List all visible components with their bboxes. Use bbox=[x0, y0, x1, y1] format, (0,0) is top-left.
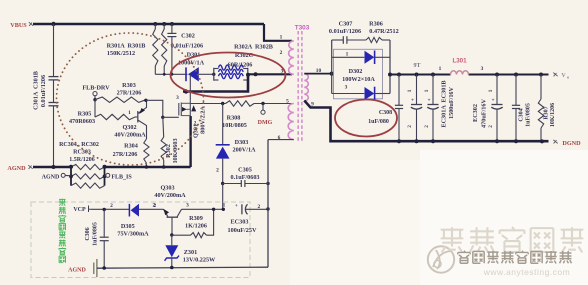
wire VCP to D305 bbox=[91, 208, 129, 210]
svg-text:10R/0805: 10R/0805 bbox=[222, 122, 247, 129]
svg-text:AGND: AGND bbox=[42, 174, 60, 180]
node VBUS junction dots bbox=[51, 22, 55, 26]
svg-text:1.5R/1206: 1.5R/1206 bbox=[69, 157, 95, 163]
wire drive node to gate bbox=[146, 100, 163, 117]
wire bottom return rail bbox=[97, 267, 268, 268]
capacitor C307 bbox=[332, 39, 343, 41]
wire AGND rail (thick) bbox=[33, 166, 71, 168]
svg-text:C301A C301B: C301A C301B bbox=[33, 71, 40, 110]
watermark logo circle bbox=[428, 246, 454, 272]
svg-text:13V/0.225W: 13V/0.225W bbox=[183, 256, 216, 263]
svg-text:3: 3 bbox=[345, 84, 348, 90]
svg-text:DMG: DMG bbox=[258, 120, 273, 126]
green dashed box bbox=[31, 202, 250, 278]
wire pin6 vertical down bbox=[267, 140, 269, 268]
svg-text:1: 1 bbox=[280, 34, 283, 40]
svg-text:2: 2 bbox=[280, 50, 283, 56]
svg-text:Q303: Q303 bbox=[160, 184, 174, 191]
wire clamp return to drain (thick L) bbox=[183, 74, 248, 91]
svg-text:5: 5 bbox=[286, 98, 289, 104]
resistor R302 10K bbox=[162, 117, 165, 137]
svg-text:EC302: EC302 bbox=[472, 104, 479, 122]
svg-text:10K/1206: 10K/1206 bbox=[550, 103, 556, 127]
svg-text:800V/2.2A: 800V/2.2A bbox=[200, 106, 207, 134]
transistor Q301 MOSFET bbox=[178, 103, 180, 116]
wire D303 vertical bbox=[222, 104, 224, 145]
svg-text:2: 2 bbox=[488, 125, 494, 128]
svg-text:AGND: AGND bbox=[68, 267, 86, 273]
svg-text:1500uF/16V: 1500uF/16V bbox=[448, 86, 455, 119]
wire Q301 source down (thick) bbox=[189, 116, 191, 167]
svg-text:40V/200mA: 40V/200mA bbox=[154, 192, 186, 199]
resistor R304 bbox=[144, 139, 149, 163]
svg-text:L301: L301 bbox=[452, 58, 467, 65]
svg-text:3: 3 bbox=[176, 95, 179, 101]
svg-text:200V/1A: 200V/1A bbox=[232, 147, 256, 154]
svg-text:40V/200mA: 40V/200mA bbox=[114, 132, 146, 139]
svg-text:0.47R/2512: 0.47R/2512 bbox=[369, 28, 398, 35]
node gate drive junction bbox=[144, 99, 147, 102]
svg-text:EC301A EC301B: EC301A EC301B bbox=[441, 80, 448, 127]
svg-text:R302: R302 bbox=[165, 144, 172, 158]
svg-text:R308: R308 bbox=[227, 115, 241, 122]
resistor R302A/B/C 60R bead (3 parallel) bbox=[214, 68, 219, 70]
svg-text:1: 1 bbox=[424, 89, 430, 92]
svg-text:R302A R302B: R302A R302B bbox=[234, 44, 273, 51]
capacitor EC302 bbox=[496, 75, 498, 105]
svg-text:1: 1 bbox=[439, 66, 442, 72]
svg-text:0.01uF/1206: 0.01uF/1206 bbox=[329, 28, 361, 35]
svg-text:EC303: EC303 bbox=[231, 218, 249, 225]
diode D302 (dual) box bbox=[334, 49, 383, 99]
svg-text:C306: C306 bbox=[85, 227, 91, 240]
svg-text:1: 1 bbox=[488, 89, 494, 92]
svg-text:R303: R303 bbox=[122, 82, 136, 89]
svg-text:R304: R304 bbox=[124, 143, 138, 150]
resistor R309 bbox=[172, 234, 191, 236]
capacitor EC301B bbox=[432, 75, 434, 105]
node output bottom rail dots bbox=[397, 139, 401, 143]
svg-text:C307: C307 bbox=[339, 20, 353, 27]
wire D301 node down to Q301 drain bbox=[189, 74, 191, 100]
svg-text:Q302: Q302 bbox=[122, 124, 136, 131]
svg-text:1uF/0805: 1uF/0805 bbox=[93, 222, 99, 246]
wire FLB-DRV down to R305 bbox=[94, 100, 96, 117]
wire drain to R308 wire bbox=[190, 103, 225, 105]
capacitor C301B bbox=[53, 80, 55, 102]
wire VBUS rail bbox=[33, 23, 264, 25]
svg-text:3: 3 bbox=[186, 203, 189, 209]
capacitor C306 bbox=[103, 210, 105, 238]
svg-text:75V/300mA: 75V/300mA bbox=[117, 231, 149, 238]
resistor R307 bbox=[540, 75, 542, 100]
svg-text:C305: C305 bbox=[238, 166, 252, 173]
node DGND terminal bbox=[553, 140, 557, 144]
wire D302 output join bbox=[389, 40, 391, 94]
svg-text:100W2×10A: 100W2×10A bbox=[342, 76, 375, 83]
svg-text:R307: R307 bbox=[544, 106, 550, 119]
wire pin 9 to output return (thick) bbox=[304, 101, 548, 142]
capacitor EC301A bbox=[416, 75, 418, 105]
svg-text:150K/2512: 150K/2512 bbox=[107, 50, 135, 57]
node D303 top junction bbox=[221, 102, 224, 105]
svg-text:1uF/0805: 1uF/0805 bbox=[526, 103, 532, 127]
resistor R308 bbox=[226, 101, 255, 106]
svg-text:0.01uF/1206: 0.01uF/1206 bbox=[40, 75, 47, 107]
wire pin 6 bbox=[268, 139, 294, 141]
transformer primary winding 1-3 bbox=[289, 41, 294, 75]
svg-text:60R/1206: 60R/1206 bbox=[228, 61, 253, 68]
diode D301 bbox=[185, 67, 187, 81]
svg-text:+: + bbox=[411, 98, 414, 104]
svg-text:AGND: AGND bbox=[7, 165, 26, 172]
svg-text:C302: C302 bbox=[181, 33, 195, 40]
capacitor C301A bbox=[53, 24, 55, 76]
watermark slogan text bbox=[458, 251, 572, 264]
svg-text:C308: C308 bbox=[379, 110, 392, 116]
svg-text:2: 2 bbox=[424, 125, 430, 128]
wire snubber node y74 bbox=[155, 73, 187, 75]
svg-text:Z301: Z301 bbox=[184, 249, 197, 256]
svg-text:2: 2 bbox=[216, 168, 219, 174]
svg-text:FLB-DRV: FLB-DRV bbox=[82, 85, 110, 92]
svg-text:C304: C304 bbox=[519, 108, 525, 121]
svg-text:470uF/16V: 470uF/16V bbox=[481, 99, 488, 128]
capacitor C302 bbox=[171, 24, 173, 33]
resistor RC302/RC303/RC304 sense block (3 parallel) bbox=[70, 167, 72, 186]
svg-text:R309: R309 bbox=[189, 215, 203, 222]
svg-text:FLB_IS: FLB_IS bbox=[111, 175, 132, 181]
zener Z301 bbox=[171, 235, 173, 245]
wire output rail (top) bbox=[390, 74, 451, 76]
svg-text:+: + bbox=[235, 203, 238, 209]
node DMG stub bbox=[261, 102, 264, 105]
svg-text:R301A R301B: R301A R301B bbox=[107, 43, 146, 50]
svg-text:27R/1206: 27R/1206 bbox=[117, 90, 142, 97]
svg-text:D303: D303 bbox=[235, 139, 249, 146]
svg-text:D305: D305 bbox=[121, 223, 135, 230]
highlight red ellipse (C308 mod) bbox=[335, 100, 397, 137]
svg-text:VCP: VCP bbox=[73, 207, 86, 213]
svg-text:470R0603: 470R0603 bbox=[69, 118, 95, 125]
wire D303 node down to EC303 wire bbox=[222, 184, 224, 210]
svg-text:2: 2 bbox=[110, 203, 113, 209]
svg-text:V: V bbox=[561, 73, 566, 79]
node FLB_IS port bbox=[106, 173, 110, 177]
svg-text:3: 3 bbox=[481, 66, 484, 72]
svg-text:1K/1206: 1K/1206 bbox=[185, 222, 207, 229]
wire Q303 base down bbox=[171, 217, 173, 235]
highlight brown dotted ellipse bbox=[53, 29, 207, 169]
svg-text:R305: R305 bbox=[78, 110, 92, 117]
svg-text:T303: T303 bbox=[295, 25, 310, 32]
svg-text:VBUS: VBUS bbox=[10, 22, 27, 29]
diode D303 bbox=[216, 144, 230, 146]
diode D305 bbox=[128, 204, 130, 217]
node Vo terminal bbox=[553, 73, 557, 77]
wire VBUS corner down to pin 1 bbox=[264, 24, 292, 41]
svg-text:RC303: RC303 bbox=[73, 150, 91, 156]
capacitor C308 1uF (circled) bbox=[398, 75, 400, 106]
svg-text:1: 1 bbox=[128, 110, 131, 116]
transformer aux winding 5-6 bbox=[288, 104, 294, 140]
svg-text:R306: R306 bbox=[369, 20, 383, 27]
resistor R301A bbox=[154, 24, 156, 29]
svg-text:+: + bbox=[491, 98, 494, 104]
svg-text:2: 2 bbox=[407, 125, 413, 128]
svg-text:D302: D302 bbox=[349, 68, 363, 75]
label green vertical caption bbox=[59, 199, 66, 263]
svg-text:100uF/25V: 100uF/25V bbox=[228, 227, 257, 234]
node D301-R302 junction bbox=[212, 73, 215, 76]
svg-text:2: 2 bbox=[152, 203, 155, 209]
svg-text:1: 1 bbox=[407, 89, 413, 92]
svg-text:0.1uF/0603: 0.1uF/0603 bbox=[230, 174, 259, 181]
transistor Q302 bbox=[137, 111, 139, 123]
svg-text:+: + bbox=[427, 98, 430, 104]
transformer secondary winding 10-9 bbox=[304, 74, 308, 101]
svg-text:1: 1 bbox=[346, 51, 349, 57]
wire R308 to transformer pin 5 bbox=[254, 103, 292, 105]
highlight red ellipse (snubber mod) bbox=[171, 53, 286, 98]
wire R302 to transformer pin 3 (thick) bbox=[248, 73, 292, 75]
resistor R305 bbox=[95, 114, 135, 119]
svg-text:www.anytesting.com: www.anytesting.com bbox=[483, 267, 570, 277]
resistor R306 bbox=[347, 39, 366, 41]
resistor R303 bbox=[95, 97, 146, 102]
node R302 right junctions bbox=[246, 73, 250, 77]
svg-text:DGND: DGND bbox=[562, 140, 581, 147]
capacitor EC303 bbox=[222, 208, 225, 211]
svg-text:27R/1206: 27R/1206 bbox=[113, 151, 138, 158]
watermark big text bbox=[441, 227, 584, 252]
capacitor C304 bbox=[515, 75, 517, 106]
svg-text:2: 2 bbox=[194, 121, 197, 127]
svg-text:9T: 9T bbox=[413, 63, 420, 69]
svg-text:1: 1 bbox=[223, 203, 226, 209]
wire pin 10 to D302 bbox=[304, 73, 331, 75]
svg-text:1uF/080: 1uF/080 bbox=[368, 119, 389, 125]
resistor R301B bbox=[163, 24, 165, 29]
